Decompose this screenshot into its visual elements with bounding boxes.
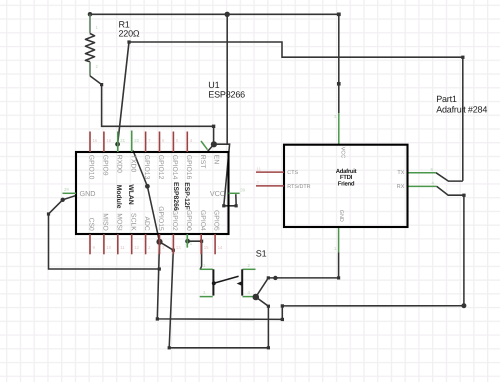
pin GPIO2 [172,234,174,254]
svg-text:22: 22 [134,138,139,143]
svg-text:WLAN: WLAN [127,184,134,204]
wire diagonal RXD0 to top net [118,42,129,144]
svg-text:18: 18 [106,138,111,143]
pin GPIO14 [172,132,174,153]
pin GPIO16 [186,132,188,153]
svg-text:GND: GND [80,189,96,198]
svg-text:12: 12 [134,245,139,250]
svg-text:RTS/DTR: RTS/DTR [287,184,310,190]
svg-text:ESP8266: ESP8266 [208,90,245,100]
FTDI GND pin (green) [338,227,340,252]
wire TXD0 through box to GPIO15 junction [133,151,160,242]
svg-text:TX: TX [397,170,404,176]
pin GPIO12 [159,132,161,153]
svg-text:GPIO5: GPIO5 [213,210,220,231]
svg-text:SCLK: SCLK [129,213,136,231]
S1 right contact bar [241,269,243,295]
pin MISO [103,234,105,254]
wire ESP GND to left rail [49,195,160,269]
svg-text:RX: RX [397,184,405,190]
svg-text:GPIO10: GPIO10 [88,155,95,180]
FTDI RX pin (green) [408,185,437,187]
pin GPIO0 (green) [186,234,188,248]
pin GPIO9 [103,132,105,153]
svg-text:U1: U1 [208,80,219,90]
wire RXD0 net to right side [129,42,463,181]
wire from R1 bottom to ESP top rail y126 [90,76,214,126]
svg-text:GPIO9: GPIO9 [102,155,109,176]
ESP inner title WLAN Module [115,182,190,211]
svg-text:RST: RST [199,155,206,169]
node junction at x227 on top rail [225,12,230,17]
svg-text:RXD0: RXD0 [115,155,122,173]
svg-text:14: 14 [218,245,223,250]
svg-text:Module: Module [115,185,122,209]
svg-text:10: 10 [106,245,111,250]
pin GPIO5 [214,234,216,254]
pin GPIO10 [89,132,91,153]
node junction y278 [273,276,277,280]
FTDI pin CTS (red) [256,171,284,173]
svg-text:Adafruit #284: Adafruit #284 [436,105,487,115]
svg-text:16: 16 [93,138,98,143]
S1 arrowhead [237,281,242,286]
svg-text:21: 21 [120,138,125,143]
op FTDI Friend box Part1 [256,94,487,227]
svg-text:GPIO15: GPIO15 [157,206,164,231]
svg-text:Adafruit: Adafruit [336,168,357,175]
svg-text:GND: GND [338,210,344,222]
pin MOSI [117,234,119,254]
FTDI VCC pin (green) [338,113,340,145]
svg-text:GPIO2: GPIO2 [171,210,178,231]
ESP left pin GND (green) [63,192,77,194]
svg-text:EN: EN [213,155,220,165]
node junction at resistor top [88,12,93,17]
svg-text:S1: S1 [256,248,267,258]
svg-text:11: 11 [257,167,262,172]
switch S1 [200,248,267,296]
ESP top pins [90,131,187,153]
pin SCLK [131,234,133,254]
S1 lever [214,276,239,283]
wire FTDI TX bend [436,173,463,181]
node switch common junction [253,294,260,301]
svg-text:VCC: VCC [210,189,225,198]
wire GPIO15 junction to bottom loop to switch common [160,242,269,348]
node GPIO15 junction [156,239,162,245]
ESP inner pin labels [80,155,226,231]
svg-text:11: 11 [120,245,125,250]
S1 left contact bar [212,269,214,295]
S1 pin 1 (green) [200,268,213,270]
svg-text:GPIO13: GPIO13 [143,155,150,180]
S1 pin 2 (green) [200,296,213,298]
pin CS0 [89,234,91,254]
svg-text:GPIO4: GPIO4 [199,210,206,231]
wire EN junction right and down to ESP VCC [214,144,237,206]
resistor R1 [85,14,94,76]
EN bent leg [207,144,214,151]
svg-text:GPIO12: GPIO12 [157,155,164,180]
svg-text:VCC: VCC [339,147,345,158]
svg-text:39: 39 [240,188,245,193]
RST bent leg (green) [201,141,208,150]
pin ADC [145,234,147,254]
op ESP8266 module box U1 [76,80,245,234]
S1 pin 4 (green) [243,296,256,298]
wire y126 corner down to EN junction [213,126,215,144]
S1 pin 3 (green) [243,268,256,270]
pin GPIO4 [200,234,202,254]
node EN junction blob [211,141,217,147]
svg-text:29: 29 [64,187,69,192]
svg-text:13: 13 [176,245,181,250]
svg-text:Friend: Friend [338,180,355,187]
pin TXD0 (green) [131,131,133,153]
wire FTDI RX bend to bottom right rail [157,186,464,319]
wire GPIO0 to switch [185,239,190,244]
pin GPIO15 [159,234,161,254]
svg-text:FTDI: FTDI [340,174,353,181]
svg-text:ADC: ADC [143,216,150,230]
svg-text:CTS: CTS [287,170,298,176]
FTDI TX pin (green) [408,172,436,174]
svg-text:ESP-12F: ESP-12F [183,182,190,210]
svg-text:GPIO0: GPIO0 [185,210,192,231]
wire vertical x338 down to FTDI VCC [338,14,340,113]
svg-text:MISO: MISO [102,213,109,230]
svg-text:CS0: CS0 [88,218,95,231]
svg-text:15: 15 [204,245,209,250]
FTDI inner title [336,168,357,188]
svg-text:TXD0: TXD0 [129,155,136,173]
wire top rail from R1 to FTDI VCC corner [90,13,339,15]
wire vertical x227 down to ESP EN net [226,14,228,144]
ESP right pin VCC (green) [229,192,240,194]
svg-text:GPIO14: GPIO14 [171,155,178,180]
FTDI pin RTS/DTR (red) [256,185,284,187]
svg-text:GPIO16: GPIO16 [185,155,192,180]
ESP bottom pins [90,234,215,254]
wire switch common to FTDI GND [256,278,339,297]
pin RXD0 (green) [117,132,119,153]
svg-text:Part1: Part1 [436,94,457,104]
svg-text:220Ω: 220Ω [119,28,140,38]
svg-text:ESP8266: ESP8266 [172,182,179,211]
pin GPIO13 [145,132,147,153]
svg-text:MOSI: MOSI [115,213,122,230]
pin number marks (tiny) [64,25,435,295]
